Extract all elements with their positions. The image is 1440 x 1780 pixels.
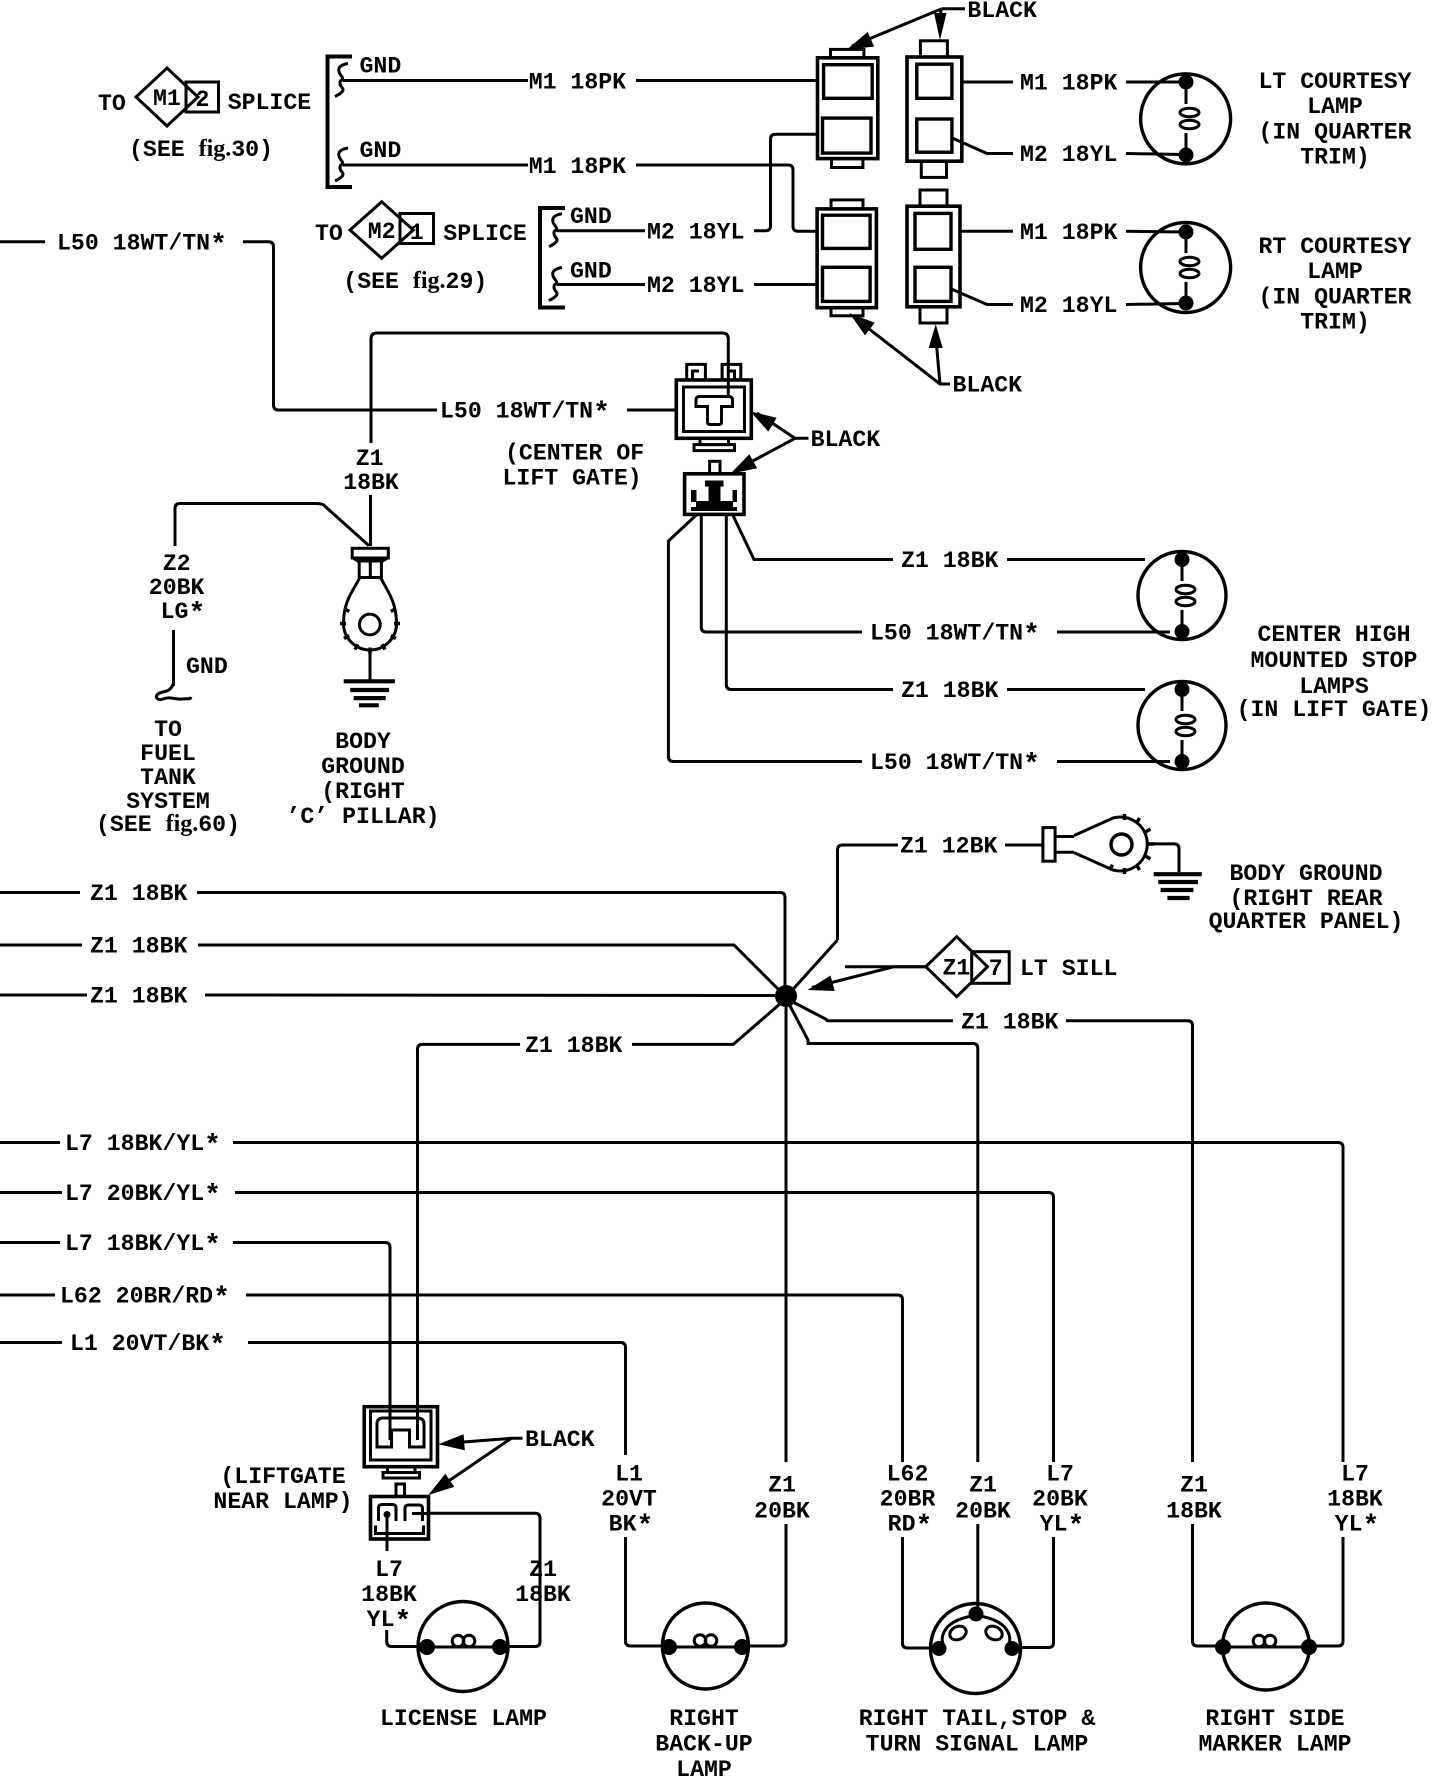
lamp LT courtesy: [1141, 74, 1231, 164]
svg-text:Z1 18BK: Z1 18BK: [961, 1010, 1058, 1036]
svg-text:LT COURTESY: LT COURTESY: [1258, 69, 1411, 95]
svg-text:1: 1: [410, 220, 424, 246]
lamp right tail stop turn (dual filament): [931, 1604, 1021, 1694]
svg-text:TANK: TANK: [140, 765, 196, 791]
svg-text:FUEL: FUEL: [140, 741, 196, 767]
wire Z2 20BK LG* (to fuel tank system): [149, 504, 369, 687]
bracket for GND pair (M2 splice): [540, 208, 565, 308]
connector C7 (liftgate near lamp, upper): [364, 1407, 437, 1478]
svg-text:GND: GND: [570, 204, 612, 230]
arrow from LT SILL splice to junction: [808, 967, 926, 991]
svg-text:MOUNTED STOP: MOUNTED STOP: [1251, 648, 1418, 674]
wire Z1 20BK (junction down to back-up lamp): [785, 1006, 788, 1462]
svg-text:SPLICE: SPLICE: [443, 221, 527, 247]
svg-text:2: 2: [196, 87, 210, 113]
svg-text:BLACK: BLACK: [953, 373, 1023, 399]
wire L62 20BR/RD* (left feed to right tail lamp): [0, 1284, 903, 1463]
svg-text:(SEE fig.30): (SEE fig.30): [129, 136, 273, 163]
svg-text:M2 18YL: M2 18YL: [1020, 142, 1117, 168]
svg-text:BLACK: BLACK: [967, 0, 1037, 24]
svg-text:TRIM): TRIM): [1300, 310, 1370, 336]
wire L7 18BK YL* (C8 to license lamp left): [361, 1515, 419, 1647]
note TO FUEL TANK SYSTEM (SEE fig.60): [96, 717, 240, 838]
svg-text:GROUND: GROUND: [321, 754, 405, 780]
svg-text:BK*: BK*: [609, 1512, 654, 1543]
wire Z1 18BK (left feed 2): [0, 934, 780, 992]
svg-text:LT SILL: LT SILL: [1020, 956, 1117, 982]
wire label L7 20BK YL* (tail right): [1016, 1462, 1088, 1648]
svg-text:18BK: 18BK: [361, 1582, 417, 1608]
wire label L62 20BR RD* (tail left): [880, 1462, 936, 1649]
svg-text:Z1: Z1: [356, 446, 384, 472]
svg-text:Z1: Z1: [768, 1473, 796, 1499]
note (LIFTGATE NEAR LAMP): [213, 1464, 352, 1515]
svg-text:M2: M2: [368, 219, 396, 245]
connector C1 (LT courtesy harness side): [818, 49, 878, 167]
svg-text:(SEE fig.60): (SEE fig.60): [96, 811, 240, 838]
svg-text:MARKER LAMP: MARKER LAMP: [1198, 1732, 1351, 1758]
ground symbol (right rear quarter panel): [1154, 874, 1202, 898]
wire stubs into C7: [390, 1407, 418, 1440]
connector C5 (center of lift gate, upper): [676, 364, 751, 450]
wire Z1 18BK (junction to right side marker): [791, 1001, 1193, 1462]
connector C3 (RT courtesy harness side): [817, 200, 876, 316]
svg-text:M1: M1: [153, 86, 181, 112]
wire M1 18PK (C4 to RT courtesy lamp): [960, 220, 1182, 246]
svg-text:(SEE fig.29): (SEE fig.29): [343, 268, 487, 295]
lamp RT courtesy: [1141, 223, 1231, 313]
svg-text:Z1: Z1: [943, 956, 971, 982]
svg-text:18BK: 18BK: [1327, 1487, 1383, 1513]
wire Z1 18BK (left feed 3): [0, 984, 778, 1010]
svg-text:YL*: YL*: [1040, 1512, 1085, 1543]
GND squiggle 4: [549, 268, 562, 301]
svg-text:20BK: 20BK: [955, 1499, 1011, 1525]
wire Z1 18BK (lift gate feed, corner to body ground C-pillar): [343, 333, 728, 546]
wire Z1 18BK (C6 to lower CHMSL lamp): [726, 514, 1145, 704]
wire L50 18WT/TN* (from left edge to center of lift gate connector): [0, 231, 677, 430]
svg-text:L62 20BR/RD*: L62 20BR/RD*: [60, 1284, 230, 1315]
svg-text:7: 7: [989, 956, 1003, 982]
svg-text:YL*: YL*: [367, 1607, 412, 1638]
note RT COURTESY LAMP (IN QUARTER TRIM): [1258, 234, 1411, 336]
svg-text:18BK: 18BK: [1166, 1499, 1222, 1525]
svg-text:L50 18WT/TN*: L50 18WT/TN*: [440, 399, 610, 430]
wire M1 18PK (upper): [343, 70, 816, 96]
svg-text:(IN LIFT GATE): (IN LIFT GATE): [1237, 697, 1432, 723]
svg-text:SPLICE: SPLICE: [228, 90, 312, 116]
note LT COURTESY LAMP (IN QUARTER TRIM): [1258, 69, 1411, 171]
svg-text:BODY: BODY: [335, 729, 391, 755]
lamp right side marker: [1215, 1603, 1317, 1690]
svg-text:GND: GND: [570, 259, 612, 285]
note (CENTER OF LIFT GATE): [503, 441, 645, 492]
wire stub to ground (right rear): [1150, 844, 1180, 872]
wire label Z1 20BK (tail center, from junction): [955, 1473, 1011, 1609]
svg-text:M1 18PK: M1 18PK: [1020, 220, 1117, 246]
svg-text:Z1 18BK: Z1 18BK: [90, 881, 187, 907]
svg-text:TO: TO: [154, 717, 182, 743]
wire label Z1 20BK (backup right, from junction vertical): [749, 1473, 810, 1647]
svg-text:L7 18BK/YL*: L7 18BK/YL*: [65, 1131, 221, 1162]
svg-text:TO: TO: [98, 91, 126, 117]
svg-text:Z1 18BK: Z1 18BK: [525, 1033, 622, 1059]
svg-text:20BK: 20BK: [149, 575, 205, 601]
svg-text:LAMP: LAMP: [1307, 259, 1363, 285]
svg-text:GND: GND: [360, 138, 402, 164]
wire Z1 18BK (left feed 1): [0, 881, 785, 988]
svg-text:L50 18WT/TN*: L50 18WT/TN*: [870, 621, 1040, 652]
svg-text:20BR: 20BR: [880, 1487, 936, 1513]
svg-text:RT COURTESY: RT COURTESY: [1258, 234, 1411, 260]
wire L7 18BK/YL* (left feed to license lamp connector): [0, 1231, 390, 1406]
terminal lug (body ground right rear quarter panel): [1043, 814, 1155, 874]
wire Z1 12BK (junction to body ground right rear): [838, 834, 1043, 941]
svg-text:20BK: 20BK: [1032, 1487, 1088, 1513]
label BLACK (top connectors) with arrows: [847, 0, 1037, 50]
wire L50 18WT/TN* (C6 to lower CHMSL lamp): [668, 514, 1170, 781]
svg-text:L7: L7: [1341, 1462, 1369, 1488]
connector C6 (center of lift gate, lower): [685, 461, 744, 514]
junction dot (Z1 splice point): [775, 985, 797, 1007]
svg-text:Z1 18BK: Z1 18BK: [901, 678, 998, 704]
svg-text:L50 18WT/TN*: L50 18WT/TN*: [57, 231, 227, 262]
caption RIGHT SIDE MARKER LAMP: [1198, 1706, 1351, 1758]
GND squiggle 3: [549, 214, 562, 247]
svg-text:Z2: Z2: [163, 551, 191, 577]
svg-text:RIGHT TAIL,STOP &: RIGHT TAIL,STOP &: [859, 1706, 1096, 1732]
svg-text:L7 20BK/YL*: L7 20BK/YL*: [65, 1181, 221, 1212]
svg-text:Z1 12BK: Z1 12BK: [900, 834, 997, 860]
label BLACK (bottom of courtesy connectors) with arrows: [849, 313, 1022, 398]
svg-text:’C’ PILLAR): ’C’ PILLAR): [286, 804, 439, 830]
svg-text:BODY GROUND: BODY GROUND: [1229, 861, 1382, 887]
svg-text:(IN QUARTER: (IN QUARTER: [1258, 120, 1411, 146]
svg-text:L1: L1: [615, 1462, 643, 1488]
wire label L7 18BK YL* (side marker right): [1313, 1462, 1383, 1647]
svg-text:LG*: LG*: [161, 599, 206, 630]
svg-text:L7: L7: [375, 1557, 403, 1583]
splice symbol Z1 7 (LT SILL): [845, 937, 1117, 997]
wire M2 18YL (C2 to LT courtesy lamp): [952, 138, 1182, 168]
wire M1 18PK (lower, to RT connector): [343, 154, 816, 231]
svg-text:M1 18PK: M1 18PK: [1020, 71, 1117, 97]
svg-text:Z1 18BK: Z1 18BK: [90, 934, 187, 960]
wire Z1 18BK (C6 to upper CHMSL lamp): [733, 514, 1146, 574]
bracket for GND pair (M1 splice): [328, 57, 353, 188]
caption RIGHT BACK-UP LAMP: [655, 1706, 752, 1780]
svg-text:LIFT GATE): LIFT GATE): [503, 466, 642, 492]
GND squiggle 1: [335, 64, 348, 97]
svg-text:M1 18PK: M1 18PK: [529, 154, 626, 180]
wire M2 18YL (upper, to LT connector lower cavity): [557, 134, 816, 245]
connector C4 (RT courtesy lamp side): [907, 190, 960, 323]
svg-text:RD*: RD*: [888, 1512, 933, 1543]
splice symbol M1 (TO M1 2 SPLICE, SEE fig.30): [98, 68, 311, 163]
wire M1 18PK (C2 to LT courtesy lamp): [962, 71, 1182, 97]
svg-text:TURN SIGNAL LAMP: TURN SIGNAL LAMP: [866, 1732, 1089, 1758]
svg-text:Z1 18BK: Z1 18BK: [90, 984, 187, 1010]
svg-text:LICENSE LAMP: LICENSE LAMP: [380, 1706, 547, 1732]
caption RIGHT TAIL STOP TURN SIGNAL LAMP: [859, 1706, 1096, 1758]
svg-text:L62: L62: [887, 1462, 929, 1488]
wire Z1 12BK diagonal into junction: [791, 940, 838, 992]
svg-text:CENTER HIGH: CENTER HIGH: [1257, 622, 1410, 648]
svg-text:(LIFTGATE: (LIFTGATE: [220, 1464, 345, 1490]
connector C2 (LT courtesy lamp side): [907, 41, 962, 178]
svg-text:BACK-UP: BACK-UP: [655, 1732, 752, 1758]
wire L7 18BK/YL* (left feed to right side marker): [0, 1131, 1343, 1462]
svg-text:Z1: Z1: [1180, 1473, 1208, 1499]
wire Z1 18BK (C8 to license lamp right): [428, 1513, 571, 1646]
GND squiggle (fuel tank pigtail): [156, 683, 191, 700]
wire L50 18WT/TN* (C6 to upper CHMSL lamp): [701, 514, 1170, 651]
GND squiggle 2: [335, 148, 348, 181]
wire M2 18YL (C4 to RT courtesy lamp): [951, 289, 1182, 319]
svg-text:Z1 18BK: Z1 18BK: [901, 548, 998, 574]
note BODY GROUND (RIGHT C PILLAR): [286, 729, 439, 830]
svg-text:20BK: 20BK: [754, 1499, 810, 1525]
svg-text:GND: GND: [186, 654, 228, 680]
label BLACK (lift gate connectors) with arrows: [730, 411, 880, 474]
svg-text:M2 18YL: M2 18YL: [1020, 293, 1117, 319]
ground symbol (right C pillar): [344, 681, 395, 705]
wire Z1 18BK (junction to license/near-lamp connector): [418, 1003, 782, 1406]
lamp CHMSL lower: [1138, 682, 1226, 770]
wire L7 20BK/YL* (left feed to right tail lamp): [0, 1181, 1054, 1462]
svg-text:18BK: 18BK: [343, 470, 399, 496]
lamp CHMSL upper: [1138, 552, 1226, 640]
svg-text:(CENTER OF: (CENTER OF: [505, 441, 644, 467]
svg-text:Z1: Z1: [529, 1557, 557, 1583]
svg-text:L7: L7: [1046, 1462, 1074, 1488]
svg-text:Z1: Z1: [969, 1473, 997, 1499]
svg-text:M2 18YL: M2 18YL: [647, 220, 744, 246]
svg-text:LAMP: LAMP: [1307, 94, 1363, 120]
svg-text:(RIGHT: (RIGHT: [321, 779, 405, 805]
svg-text:L1 20VT/BK*: L1 20VT/BK*: [70, 1331, 226, 1362]
svg-text:M2 18YL: M2 18YL: [647, 273, 744, 299]
note BODY GROUND (RIGHT REAR QUARTER PANEL): [1209, 861, 1404, 935]
terminal lug (body ground right C pillar): [340, 548, 400, 653]
wire M2 18YL (lower, to RT connector lower cavity): [557, 273, 816, 299]
wire label L1 20VT BK* (backup left): [601, 1462, 662, 1647]
svg-text:BLACK: BLACK: [811, 427, 881, 453]
connector C8 (liftgate near lamp, lower): [371, 1484, 429, 1539]
svg-text:20VT: 20VT: [601, 1487, 657, 1513]
svg-text:L50 18WT/TN*: L50 18WT/TN*: [870, 750, 1040, 781]
svg-text:RIGHT SIDE: RIGHT SIDE: [1205, 1706, 1344, 1732]
svg-text:GND: GND: [360, 54, 402, 80]
svg-text:BLACK: BLACK: [525, 1427, 595, 1453]
svg-text:18BK: 18BK: [515, 1582, 571, 1608]
splice symbol M2 (TO M2 1 SPLICE, SEE fig.29): [315, 202, 527, 295]
svg-text:(IN QUARTER: (IN QUARTER: [1258, 285, 1411, 311]
wire Z1 18BK (junction to right tail lamp): [789, 1004, 978, 1462]
svg-text:L7 18BK/YL*: L7 18BK/YL*: [65, 1231, 221, 1262]
svg-text:YL*: YL*: [1335, 1512, 1380, 1543]
svg-text:RIGHT: RIGHT: [669, 1706, 739, 1732]
lamp right back-up: [661, 1603, 750, 1689]
svg-text:M1 18PK: M1 18PK: [529, 70, 626, 96]
svg-text:NEAR LAMP): NEAR LAMP): [213, 1489, 352, 1515]
wire label Z1 18BK (side marker left, from junction): [1166, 1473, 1222, 1647]
lamp license: [418, 1602, 508, 1692]
wire L1 20VT/BK* (left feed to back-up lamp): [0, 1331, 626, 1455]
note CENTER HIGH MOUNTED STOP LAMPS (IN LIFT GATE): [1237, 622, 1432, 723]
svg-text:TO: TO: [315, 221, 343, 247]
svg-text:QUARTER PANEL): QUARTER PANEL): [1209, 909, 1404, 935]
svg-text:TRIM): TRIM): [1300, 145, 1370, 171]
wire stub below ground lug: [369, 651, 372, 682]
svg-text:LAMP: LAMP: [676, 1757, 732, 1780]
label BLACK (near lamp connectors) with arrows: [428, 1427, 594, 1495]
